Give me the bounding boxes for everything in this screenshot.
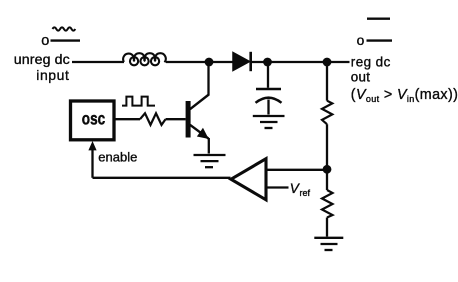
wire: R2 to ground (326, 218, 328, 237)
node B junction dot (263, 58, 272, 67)
wire: node C to output label (327, 61, 350, 63)
comparator U2 (231, 159, 266, 200)
diode D1 (233, 53, 250, 71)
inductor L1 (123, 53, 166, 65)
svg-text:ref: ref (300, 188, 311, 198)
wire: input to inductor (72, 61, 124, 63)
svg-text:unreg dc: unreg dc (14, 52, 70, 68)
unregulated waveform ripple squiggle (53, 27, 76, 30)
wire: node B down to capacitor (267, 62, 269, 88)
wire: comparator output to enable (93, 177, 231, 179)
ground G2 (253, 116, 285, 128)
svg-text:o: o (357, 33, 365, 48)
enable arrowhead (89, 142, 96, 150)
resistor R2 (322, 190, 333, 218)
svg-text:osc: osc (82, 110, 106, 129)
node A junction dot (205, 58, 214, 67)
oscillator pulse waveform (122, 97, 155, 106)
transistor Q1 collector lead (190, 95, 209, 110)
node D junction dot (323, 165, 332, 174)
wire: R1 to node D (326, 124, 328, 170)
wire: node C down to resistor R1 (326, 62, 328, 101)
regulated waveform flat line (367, 18, 390, 20)
wire: node D to comparator input (266, 169, 327, 171)
wire: R3 to base (166, 118, 186, 120)
wire: node D to resistor R2 (326, 170, 328, 190)
ground G3 (314, 238, 343, 250)
svg-text:out: out (351, 69, 371, 84)
wire: osc output to resistor R3 (114, 118, 140, 120)
ground G1 (194, 155, 226, 167)
wire: capacitor to ground (267, 100, 269, 115)
capacitor C1 top plate (256, 88, 281, 91)
transistor Q1 emitter arrow (198, 129, 208, 139)
transistor Q1 emitter lead (190, 125, 209, 139)
regulated terminal line (367, 39, 393, 41)
resistor R1 (322, 101, 332, 125)
svg-text:reg dc: reg dc (351, 54, 391, 69)
wire: node B to node C (268, 61, 328, 63)
comparator Vref input wire (267, 186, 289, 188)
resistor R3 (140, 113, 166, 125)
wire: diode to node B (251, 61, 268, 63)
enable arrow line (91, 149, 93, 178)
capacitor C1 curved plate (256, 98, 282, 103)
svg-text:enable: enable (98, 149, 137, 164)
node C junction dot (323, 58, 332, 67)
svg-text:(Vout > Vin(max)): (Vout > Vin(max)) (351, 87, 458, 104)
wire: node A down to collector (207, 62, 209, 96)
svg-text:o: o (41, 33, 49, 49)
svg-text:input: input (36, 67, 69, 83)
wire: node A to diode (209, 61, 233, 63)
wire: inductor to node A (166, 61, 209, 63)
wire: emitter to ground (208, 138, 210, 154)
oscillator box U1 (71, 101, 115, 140)
transistor Q1 base bar (186, 101, 191, 138)
unregulated terminal line (51, 39, 81, 41)
